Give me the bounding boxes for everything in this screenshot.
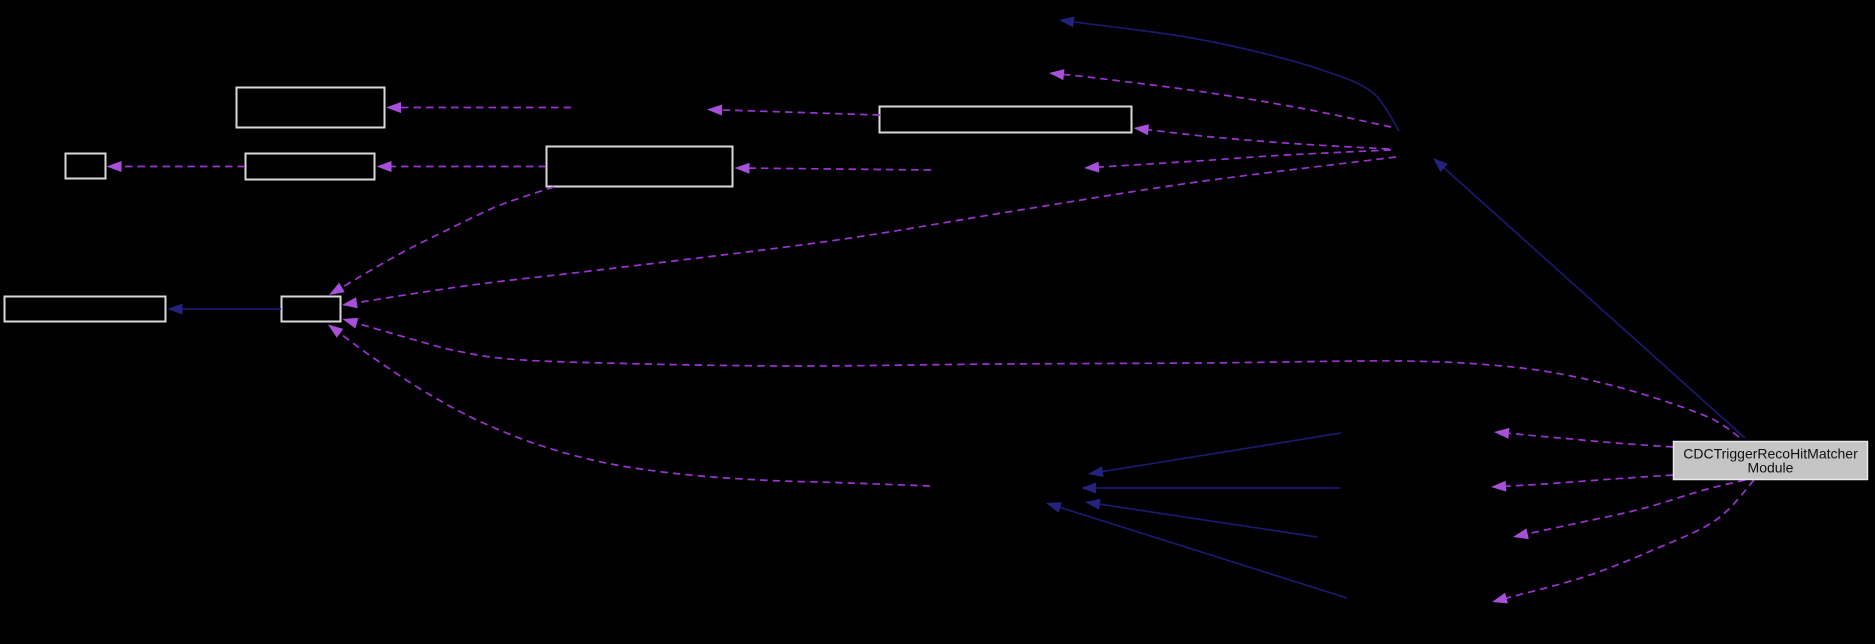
edge solid inherit 2: [1081, 483, 1340, 494]
edge solid inherit 3: [1085, 499, 1317, 537]
edge solid inherit 1: [1088, 433, 1341, 477]
edge dashed into box3: [735, 163, 932, 174]
svg-text:Module: Module: [1748, 460, 1794, 476]
node box1: [237, 88, 385, 128]
edge dashed box3 to box6 top: [329, 187, 554, 295]
node box5-bottom-left: [5, 297, 166, 322]
edge dashed hub to top-left invisible: [1049, 69, 1391, 127]
node box-small-left: [66, 154, 106, 179]
edge solid module to hub: [1433, 158, 1745, 438]
edge dashed hub to box6 upper: [342, 157, 1396, 308]
edge dashed invisible to box6 corner: [328, 325, 930, 487]
edge dashed into box1: [386, 102, 571, 113]
edge dashed hub to mid invisible: [1084, 150, 1391, 173]
edge solid box6 to box5: [168, 304, 282, 315]
edge dashed module to box6 lower: [343, 318, 1740, 437]
edge dashed module to left invisible 1: [1494, 428, 1673, 447]
node box4: [880, 107, 1132, 133]
node CDCTriggerRecoHitMatcherModule (current): [1674, 442, 1868, 480]
edge solid hub to top invisible: [1059, 17, 1399, 132]
edge dashed box3 to box2: [377, 161, 547, 172]
node box3: [547, 147, 733, 187]
edge solid inherit 4: [1046, 502, 1347, 598]
node box2: [246, 154, 375, 180]
edge dashed module to lower invisible 2: [1492, 480, 1754, 603]
edge dashed module to lower invisible 1: [1513, 480, 1745, 539]
edge dashed hub to box4: [1134, 124, 1390, 149]
node box6-small-mid: [282, 297, 341, 322]
edge dashed module to left invisible 2: [1491, 475, 1673, 492]
edge dashed box2 to small left box: [107, 161, 246, 172]
edge dashed box4 to invisible node: [707, 105, 880, 116]
